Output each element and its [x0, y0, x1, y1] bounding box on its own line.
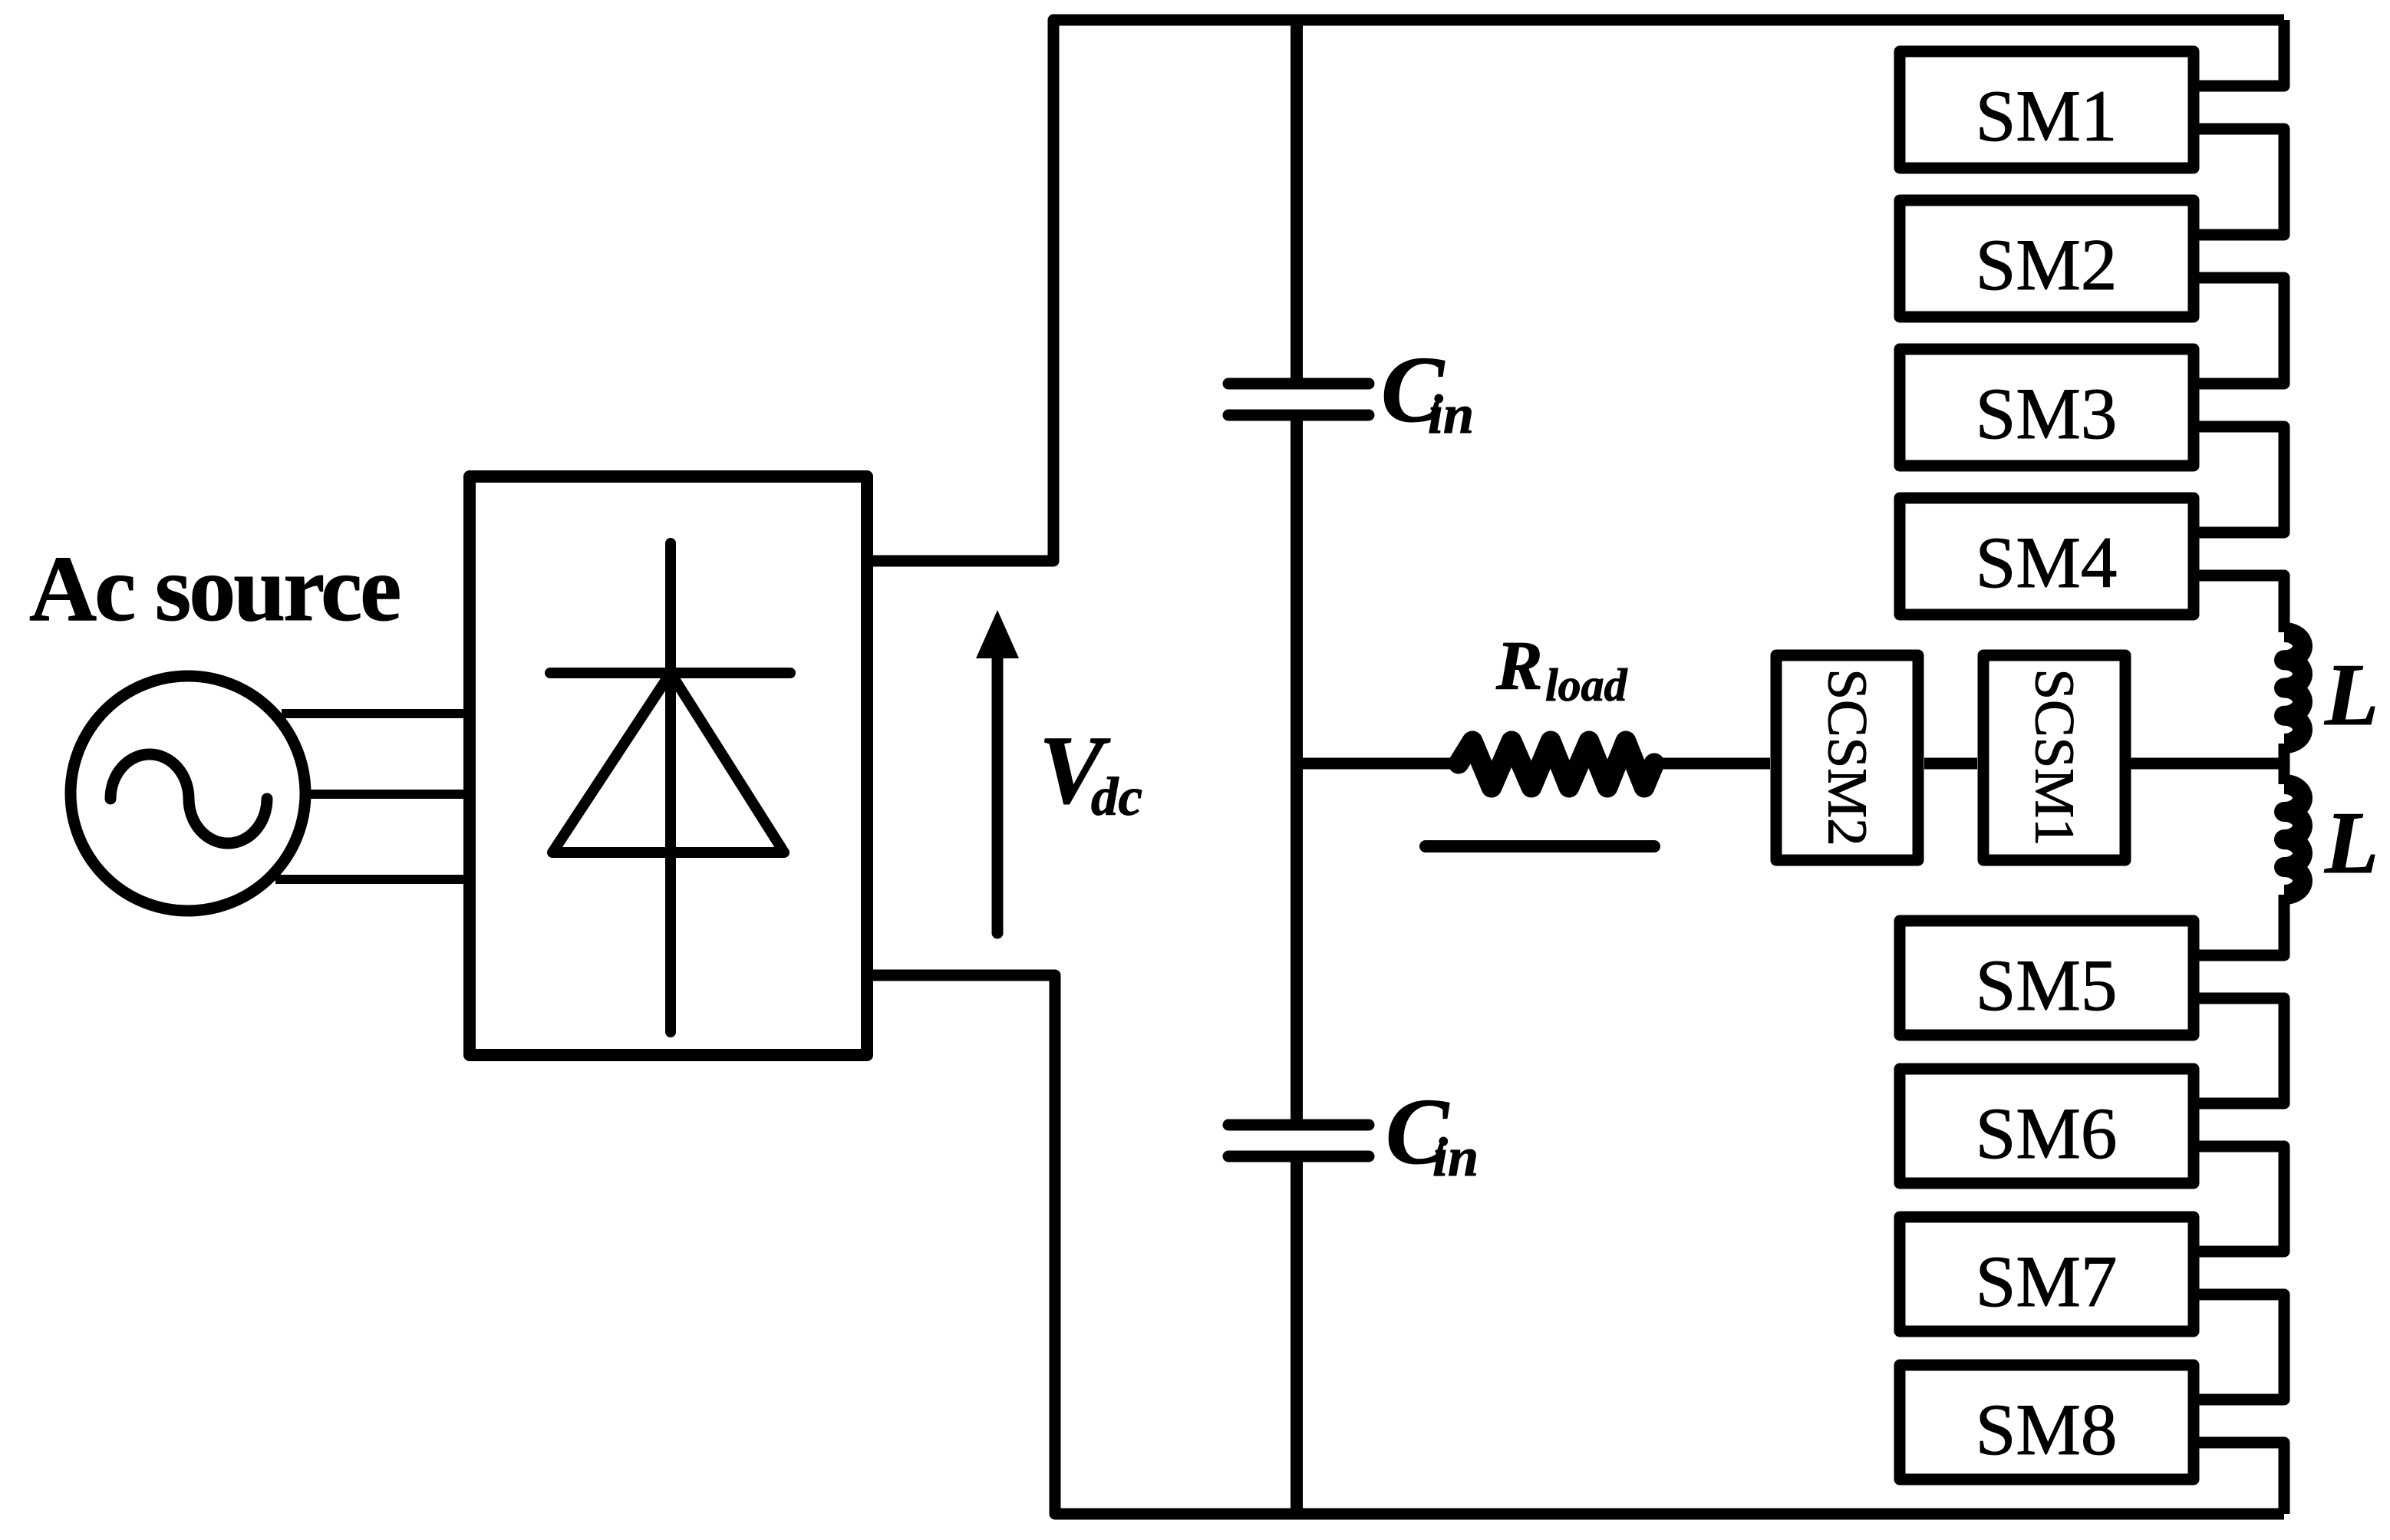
SM6 box [1900, 1069, 2194, 1183]
center dc bus upper segment [1291, 20, 1303, 384]
svg-text:SCSM2: SCSM2 [1816, 668, 1878, 846]
capacitor Cin bottom plate1 [1228, 1120, 1369, 1131]
center dc bus lower segment [1291, 1156, 1303, 1514]
capacitor Cin bottom plate2 [1228, 1151, 1369, 1162]
resistor Rload [1459, 741, 1654, 787]
svg-text:SM4: SM4 [1976, 522, 2118, 603]
diode vertical line [665, 543, 676, 1032]
svg-text:SM5: SM5 [1976, 945, 2118, 1026]
diode cathode bar [550, 668, 790, 678]
svg-text:in: in [1428, 384, 1474, 445]
wire SCSM2-SCSM1 [1924, 758, 1977, 770]
SCSM1 box [1983, 655, 2125, 860]
wire SM2 lower to SM3 upper [2199, 278, 2284, 384]
wire SM4 lower to inductor top [2199, 575, 2284, 632]
wire inductor bottom to SM5 upper [2199, 895, 2284, 955]
SM1 box [1900, 51, 2194, 168]
SM8 box [1900, 1365, 2194, 1479]
SM5 box [1900, 921, 2194, 1035]
svg-text:L: L [2324, 794, 2378, 892]
wire inductor junction segment [2279, 744, 2290, 784]
svg-text:in: in [1432, 1126, 1479, 1188]
SM7 box [1900, 1217, 2194, 1331]
wire ac phase mid [307, 790, 476, 799]
svg-text:SCSM1: SCSM1 [2023, 668, 2085, 846]
SCSM2 box [1776, 655, 1918, 860]
wire ac phase bottom [275, 875, 476, 884]
wire SM5 lower to SM6 upper [2199, 998, 2284, 1103]
SM3 box [1900, 349, 2194, 466]
wire SM1 lower to SM2 upper [2199, 129, 2284, 235]
center dc bus middle segment [1291, 415, 1303, 1125]
line below resistor [1426, 840, 1654, 852]
svg-text:SM2: SM2 [1976, 224, 2118, 305]
capacitor Cin top plate1 [1228, 378, 1369, 390]
inductor L lower coil [2284, 784, 2303, 895]
wire SCSM1 to inductor junction [2125, 758, 2284, 770]
ac source sine [110, 754, 267, 843]
wire SM3 lower to SM4 upper [2199, 427, 2284, 533]
SM4 box [1900, 498, 2194, 615]
rectifier box [470, 477, 867, 1055]
svg-text:L: L [2324, 646, 2378, 744]
wire SM6 lower to SM7 upper [2199, 1146, 2284, 1251]
svg-text:Ac source: Ac source [29, 537, 399, 641]
svg-text:SM3: SM3 [1976, 373, 2118, 454]
wire rectifier bottom output [867, 975, 2284, 1514]
diode triangle [552, 673, 784, 852]
wire SM7 lower to SM8 upper [2199, 1294, 2284, 1400]
capacitor Cin top plate2 [1228, 410, 1369, 421]
wire chain top bus to SM1 upper [2199, 20, 2284, 86]
svg-text:SM1: SM1 [1976, 75, 2118, 157]
ac source circle [71, 676, 305, 911]
svg-text:SM8: SM8 [1976, 1389, 2118, 1470]
svg-text:load: load [1545, 660, 1628, 711]
Vdc arrow [992, 648, 1004, 933]
svg-text:R: R [1495, 627, 1543, 704]
SM2 box [1900, 200, 2194, 317]
inductor L upper coil [2284, 632, 2303, 744]
svg-text:dc: dc [1091, 767, 1142, 827]
wire rectifier top output [867, 20, 2284, 561]
wire load right [1654, 758, 1770, 770]
wire SM8 lower to bottom bus [2199, 1443, 2284, 1514]
wire ac phase top [282, 709, 476, 718]
wire load left [1297, 758, 1459, 770]
svg-text:SM7: SM7 [1976, 1241, 2118, 1322]
svg-text:SM6: SM6 [1976, 1093, 2118, 1174]
